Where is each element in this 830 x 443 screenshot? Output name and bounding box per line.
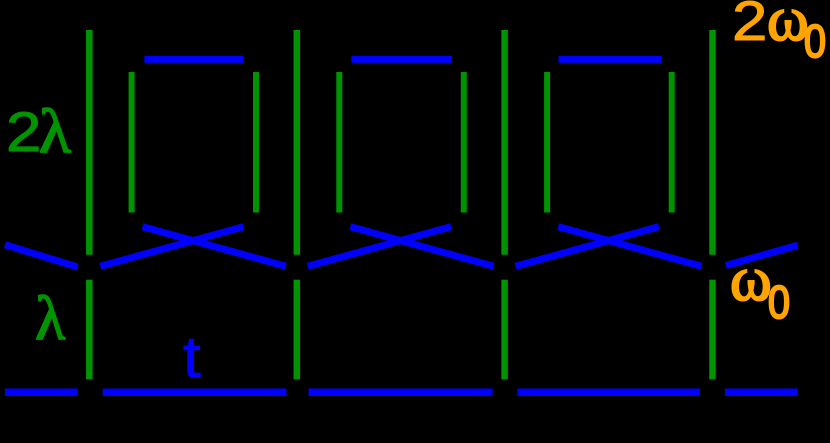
long green coupling line site3 lower — [501, 280, 508, 380]
label omega0 omega — [730, 278, 772, 280]
bottom chain segment 2 — [103, 389, 287, 397]
bottom chain segment 1 — [5, 389, 77, 397]
long green coupling line site4 upper — [709, 30, 716, 255]
middle level cell1 rising diagonal — [100, 227, 243, 267]
label 2-lambda digit — [6, 131, 41, 133]
long green coupling line site1 upper — [86, 30, 93, 255]
label t — [183, 357, 201, 359]
short green coupling line cell3 right — [669, 72, 675, 213]
middle level cell2 falling diagonal — [350, 227, 493, 267]
label 2-omega0 digit — [732, 20, 767, 22]
short green coupling line cell2 right — [461, 72, 467, 213]
short green coupling line cell1 right — [253, 72, 259, 213]
label 2-omega0 omega — [767, 18, 809, 20]
middle level cell2 rising diagonal — [308, 227, 451, 267]
upper level bar cell3 — [559, 56, 662, 63]
bottom chain segment 4 — [518, 389, 701, 397]
middle level left edge stub — [5, 245, 78, 267]
upper level bar cell2 — [351, 56, 452, 63]
bottom chain segment 3 — [309, 389, 493, 397]
label lambda — [35, 318, 65, 320]
upper level bar cell1 (2omega0 level) — [144, 56, 243, 63]
long green coupling line site4 lower — [709, 280, 716, 380]
long green coupling line site2 upper — [294, 30, 301, 255]
middle level right edge stub — [726, 245, 798, 265]
bottom chain segment 5 — [725, 389, 798, 397]
label 2-lambda lambda — [39, 131, 71, 133]
short green coupling line cell2 left — [336, 72, 342, 213]
short green coupling line cell3 left — [544, 72, 550, 213]
long green coupling line site3 upper — [501, 30, 508, 255]
long green coupling line site1 lower — [86, 280, 93, 380]
middle level cell3 rising diagonal — [516, 227, 659, 267]
long green coupling line site2 lower — [294, 280, 301, 380]
short green coupling line cell1 left — [129, 72, 135, 213]
middle level cell1 falling diagonal — [143, 227, 286, 267]
middle level cell3 falling diagonal — [558, 227, 701, 267]
label omega0 subscript 0 — [768, 301, 790, 303]
label 2-omega0 subscript 0 — [804, 40, 826, 42]
